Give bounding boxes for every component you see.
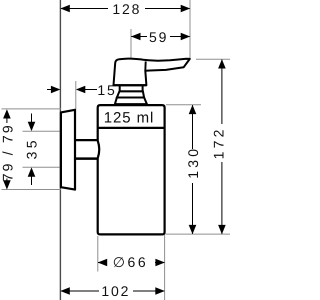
dimension 79 / 79 bbox=[0, 109, 16, 189]
svg-text:125 ml: 125 ml bbox=[104, 109, 154, 126]
cap bottom edge bbox=[113, 84, 146, 86]
dimension 130 bbox=[185, 105, 201, 234]
bottle joint line under 125 ml label bbox=[98, 127, 165, 129]
extension line spout right horizontal bbox=[196, 58, 230, 60]
extension line bottle left bottom vertical bbox=[97, 236, 99, 272]
extension line plate front vertical bbox=[75, 81, 77, 110]
svg-text:∅66: ∅66 bbox=[113, 254, 149, 270]
svg-text:172: 172 bbox=[211, 126, 227, 159]
neck flare bbox=[115, 98, 147, 105]
extension line bottle right bottom vertical bbox=[164, 235, 166, 300]
dimension 128 bbox=[60, 1, 190, 17]
dimension 102 bbox=[60, 283, 165, 299]
wall plate side view bbox=[61, 110, 75, 190]
extension line pump cap vertical bbox=[130, 29, 132, 58]
extension line spout tip vertical bbox=[189, 0, 191, 59]
left extension line hole lower bbox=[23, 166, 62, 168]
svg-text:59: 59 bbox=[149, 29, 168, 45]
bottle body with holder ring bulge bbox=[98, 105, 165, 234]
svg-text:35: 35 bbox=[24, 137, 40, 159]
extension line bottle top right horizontal bbox=[166, 104, 201, 106]
cap right edge above lever bottom bbox=[144, 61, 146, 70]
left extension line hole upper bbox=[23, 130, 62, 132]
dimension diameter 66 bbox=[98, 254, 165, 270]
left extension line plate top bbox=[2, 108, 62, 110]
holder arm top line bbox=[76, 139, 98, 141]
svg-text:128: 128 bbox=[112, 1, 141, 17]
holder arm bottom line bbox=[76, 157, 98, 160]
extension line bottle bottom horizontal bbox=[166, 233, 231, 235]
neck ring upper bbox=[120, 85, 143, 91]
pump cap and lever outline bbox=[114, 59, 190, 86]
svg-text:130: 130 bbox=[185, 146, 201, 179]
dimension 172 bbox=[211, 59, 227, 234]
neck ring lower bbox=[117, 91, 144, 97]
wall line bbox=[59, 0, 61, 300]
dimension 35 bbox=[24, 114, 40, 186]
dimension 15 bbox=[47, 82, 117, 98]
svg-text:102: 102 bbox=[101, 283, 130, 299]
svg-text:79 / 79: 79 / 79 bbox=[0, 123, 16, 181]
dimension 59 bbox=[131, 29, 190, 45]
left extension line plate bottom bbox=[2, 189, 62, 191]
